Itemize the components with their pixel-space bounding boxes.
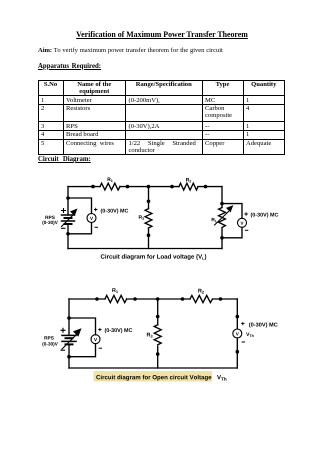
wire: R3 branch upper (c2) (157, 299, 159, 325)
apparatus table (38, 80, 286, 156)
label (0-30V) MC for V2 (251, 213, 278, 218)
resistor R3 (circuit 1) (145, 209, 152, 228)
apparatus heading (38, 63, 101, 70)
wire: R3 branch upper (148, 187, 150, 209)
label R3 (c1) (139, 215, 144, 219)
wire: R3 branch lower (c2) (157, 346, 159, 368)
wire: top rail mid segment (c2) (127, 298, 190, 300)
label Vth (246, 333, 253, 337)
wire: left rail lower (c2) (68, 344, 70, 368)
wire: voltmeter branch top (circuit 1 left) (68, 198, 92, 214)
node: R2 right terminal (204, 185, 208, 189)
node: V3 branch bottom junction (c2) (67, 355, 71, 359)
labels circuit 1 (42, 178, 278, 260)
node: V1 branch bottom junction (66, 232, 70, 236)
RPS variable arrow (circuit 2) (62, 335, 76, 349)
resistor RL (circuit 1) (219, 208, 226, 228)
wire: top rail right segment (c2) (213, 298, 238, 300)
wire: top rail mid segment (120, 186, 179, 188)
wire: left rail upper (67, 187, 69, 215)
label + of Vth meter (241, 322, 244, 325)
label V of voltmeter V2 (241, 222, 244, 225)
wire: left rail lower (67, 224, 69, 249)
wire: top rail right segment (198, 186, 222, 188)
label R1 (c1) (108, 178, 113, 182)
label + of RPS (c2) (61, 328, 66, 333)
wire: right rail lower (c2) (236, 338, 238, 368)
node: RL top junction (220, 202, 224, 206)
RPS source battery plates (circuit 1) (62, 214, 75, 216)
node: R1 left terminal (91, 185, 95, 189)
node: RL bottom junction (220, 236, 224, 240)
wire: right rail upper (c2) (236, 299, 238, 329)
wire: voltmeter branch bottom (circuit 2 left) (69, 344, 96, 357)
caption circuit 2 highlight (94, 371, 213, 382)
voltmeter V2 circle (238, 218, 247, 227)
label R3 (c2) (147, 333, 153, 338)
voltmeter V3 circle (91, 335, 100, 344)
polarity marks (61, 208, 249, 350)
circuit diagram heading (38, 156, 91, 163)
label - of V1 (95, 226, 98, 228)
label - of Vth meter (242, 341, 245, 343)
label - of V2 (245, 229, 248, 231)
wire: top rail left segment (68, 186, 100, 188)
node: R2 left terminal (170, 185, 174, 189)
caption circuit 1 (101, 254, 206, 260)
wire: voltmeter branch top (circuit 2 left) (69, 318, 96, 335)
node: R1 left terminal (c2) (95, 297, 99, 301)
wire: R3 branch lower (148, 228, 150, 249)
labels circuit 2 (42, 288, 277, 381)
label RPS (c2) (44, 336, 53, 339)
resistor R1 (circuit 2) (105, 295, 127, 302)
label (0-30V) MC for V1 (101, 209, 128, 214)
label R1 (c2) (112, 288, 118, 293)
node: R3 lower terminal (147, 233, 151, 237)
label + of V3 (98, 328, 101, 331)
resistor R2 (circuit 2) (190, 295, 212, 302)
caption circuit 2 (96, 375, 211, 381)
title (2, 30, 320, 39)
node: V3 branch top junction (c2) (67, 316, 71, 320)
wire: bottom rail (circuit 2) (69, 367, 237, 369)
label - of RPS (c2) (61, 349, 66, 351)
label - of V3 (99, 347, 102, 349)
RPS variable arrow (circuit 1) (62, 215, 74, 227)
resistor R1 (100, 183, 120, 190)
wire: top rail left segment (c2) (69, 298, 105, 300)
node: R3 top rail junction (c2) (156, 297, 160, 301)
wire: left rail upper (c2) (68, 299, 70, 335)
resistor R3 (circuit 2) (154, 325, 161, 345)
wire: RL lower to bottom rail (221, 229, 223, 249)
label + of RPS (c1) (61, 208, 66, 213)
node: R3 upper terminal (c2) (156, 315, 160, 319)
label (0-30)V of RPS (c1) (42, 221, 57, 225)
node: Vth bottom terminal (c2) (236, 350, 240, 354)
node: R3 top rail junction (147, 185, 151, 189)
label RPS (c1) (45, 216, 54, 219)
RL variable arrow (215, 212, 229, 226)
label V of voltmeter V3 (94, 338, 97, 341)
wire: bottom rail (circuit 1) (68, 248, 222, 250)
voltmeter Vth circle (233, 329, 242, 338)
caption circuit 2 Vth (217, 375, 226, 381)
node: R1 right terminal (c2) (133, 297, 137, 301)
label R2 (c2) (198, 289, 204, 294)
wire: voltmeter branch bottom (circuit 1 right) (222, 227, 242, 238)
voltmeter V1 circle (87, 214, 96, 223)
label V of voltmeter V1 (90, 217, 93, 220)
label (0-30V) MC for V3 (105, 328, 132, 333)
label (0-30V) MC for Vth (249, 322, 277, 327)
label V of voltmeter Vth (236, 332, 239, 335)
label (0-30)V of RPS (c2) (42, 342, 57, 346)
label - of RPS (c1) (61, 227, 66, 229)
aim line (38, 47, 288, 54)
node: R3 upper terminal (147, 200, 151, 204)
label + of V2 (244, 212, 247, 215)
junction dots circuit 1 (66, 185, 239, 359)
node: R2 right terminal (c2) (219, 297, 223, 301)
wire: voltmeter branch top (circuit 1 right) (222, 204, 242, 219)
node: R3 lower terminal (c2) (156, 352, 160, 356)
node: Vth top terminal (c2) (236, 315, 240, 319)
RPS source battery plates (circuit 2) (62, 334, 76, 336)
node: R2 left terminal (c2) (181, 297, 185, 301)
wire: voltmeter branch bottom (circuit 1 left) (68, 223, 92, 234)
node: V1 branch top junction (66, 196, 70, 200)
resistor R2 (179, 183, 198, 190)
label + of V1 (94, 208, 97, 211)
node: R1 right terminal (126, 185, 130, 189)
wire: right rail upper (circuit 1) (221, 187, 223, 208)
label RL (c1) (212, 218, 217, 222)
label R2 (c1) (186, 178, 191, 182)
